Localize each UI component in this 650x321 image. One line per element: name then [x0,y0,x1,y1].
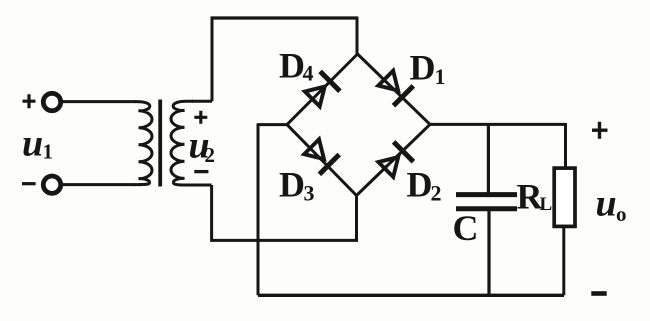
wire bottom node across to transformer [212,239,358,242]
wire capacitor bottom lead [487,209,490,296]
label D3 [279,165,315,206]
label D1 [410,47,446,89]
wire top rail down to bridge top node [356,17,359,55]
label D2 [407,165,442,206]
svg-text:u: u [22,122,43,164]
capacitor C plates [456,195,517,209]
label uo [596,183,627,226]
wire down to resistor top [564,123,567,167]
wire top rail [211,16,358,19]
resistor RL [554,168,575,226]
wire bridge bottom node down [355,196,358,241]
diode D4 [302,71,339,108]
wire right node to output branch [430,123,566,126]
label + (input plus sign) [23,94,36,108]
label RL [517,176,553,216]
svg-text:D: D [407,165,433,205]
svg-text:u: u [596,183,617,225]
svg-text:1: 1 [43,140,54,164]
wire - terminal to primary bottom [61,183,137,186]
wire resistor bottom to rail [562,226,565,295]
svg-text:2: 2 [431,181,442,206]
svg-text:3: 3 [304,181,315,206]
terminal + input [43,93,60,110]
label u1 [22,122,53,164]
svg-text:1: 1 [435,64,446,89]
label + (output plus sign) [592,122,608,139]
wire capacitor top lead [487,124,490,194]
wire left drop to bottom rail [257,123,260,295]
svg-text:2: 2 [205,143,216,167]
svg-text:D: D [279,165,305,205]
diode D2 [376,142,413,179]
wire secondary bottom lead [192,184,212,187]
label - (secondary minus sign) [194,170,208,173]
label C [453,208,479,248]
wire bridge arm left-top [287,54,358,125]
transformer primary coil [135,102,152,185]
label u2 [189,124,216,167]
wire riser secondary top to top rail [211,18,214,101]
wire up to secondary bottom [210,185,213,242]
label D4 [279,45,314,85]
wire bridge arm bottom-right [357,124,431,195]
wire bridge arm left-bottom [287,125,357,196]
svg-text:D: D [279,45,305,85]
diode D3 [302,137,339,174]
svg-text:L: L [540,194,553,215]
label - (input minus sign) [22,182,36,185]
wire bottom rail [258,294,564,297]
wire + terminal to primary top [61,100,137,103]
wire bridge arm top-right [358,54,431,124]
label + (secondary plus sign) [194,111,207,124]
transformer secondary coil [171,101,193,185]
diode D1 [376,68,413,105]
svg-text:D: D [410,47,436,87]
svg-text:4: 4 [303,61,314,86]
svg-text:C: C [453,208,479,248]
wire secondary top to rail riser [192,100,212,103]
svg-text:o: o [616,202,627,226]
label - (output minus sign) [591,291,606,296]
transformer core [158,100,162,187]
wire left node to left drop [258,123,287,126]
terminal - input [43,176,60,193]
